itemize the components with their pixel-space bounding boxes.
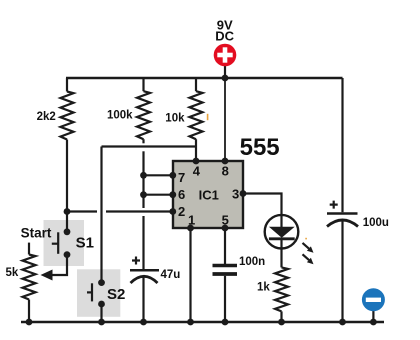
svg-text:100n: 100n <box>239 256 265 268</box>
svg-text:5k: 5k <box>6 267 19 279</box>
svg-text:1: 1 <box>188 212 195 227</box>
svg-text:Start: Start <box>21 226 52 241</box>
svg-text:100k: 100k <box>107 110 133 122</box>
svg-text:1k: 1k <box>257 282 270 294</box>
svg-text:7: 7 <box>178 170 185 185</box>
svg-text:2: 2 <box>178 204 185 219</box>
svg-text:100u: 100u <box>363 217 389 229</box>
svg-text:4: 4 <box>193 164 201 179</box>
svg-text:47u: 47u <box>161 269 181 281</box>
svg-text:10k: 10k <box>165 112 185 124</box>
svg-text:S2: S2 <box>107 286 125 303</box>
svg-text:5: 5 <box>222 212 229 227</box>
svg-text:IC1: IC1 <box>199 188 219 203</box>
svg-text:8: 8 <box>222 164 229 179</box>
svg-text:DC: DC <box>215 28 234 43</box>
svg-text:6: 6 <box>178 187 185 202</box>
svg-text:2k2: 2k2 <box>37 111 56 123</box>
svg-text:3: 3 <box>232 187 239 202</box>
svg-text:555: 555 <box>240 134 280 161</box>
svg-text:S1: S1 <box>76 234 94 251</box>
